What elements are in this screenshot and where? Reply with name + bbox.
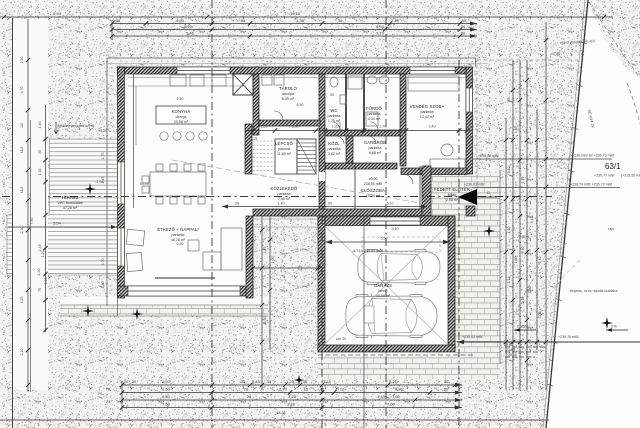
svg-text:9,70: 9,70 <box>376 31 385 36</box>
svg-text:15: 15 <box>304 387 309 392</box>
svg-text:(+215,50 mBf): (+215,50 mBf) <box>621 174 640 178</box>
svg-text:Ø 10: Ø 10 <box>336 387 345 392</box>
svg-text:1,75 m²: 1,75 m² <box>328 119 341 123</box>
svg-text:ELŐSZOBA: ELŐSZOBA <box>361 188 385 193</box>
svg-text:ÉTKEZŐ + NAPPALI: ÉTKEZŐ + NAPPALI <box>157 227 198 232</box>
svg-text:23,60: 23,60 <box>504 343 513 347</box>
svg-text:3,28: 3,28 <box>287 402 296 407</box>
svg-text:20: 20 <box>20 123 24 127</box>
svg-text:WC: WC <box>330 108 337 113</box>
svg-text:3,14: 3,14 <box>507 277 511 284</box>
svg-text:2,13: 2,13 <box>521 177 525 184</box>
svg-text:-4,71 = 255,65 mBf: -4,71 = 255,65 mBf <box>352 249 383 253</box>
svg-text:6,88 m²: 6,88 m² <box>369 151 382 155</box>
svg-text:30: 30 <box>330 93 334 97</box>
svg-text:5,10: 5,10 <box>392 227 399 231</box>
svg-text:cherga: cherga <box>176 115 187 119</box>
svg-text:1,20: 1,20 <box>332 125 339 129</box>
svg-text:parketta: parketta <box>421 110 434 114</box>
svg-text:parketta: parketta <box>369 146 382 150</box>
svg-text:30: 30 <box>444 387 449 392</box>
svg-text:6,40: 6,40 <box>538 257 542 264</box>
svg-text:um 30: um 30 <box>336 337 346 341</box>
svg-text:47,28 m²: 47,28 m² <box>63 206 78 210</box>
svg-text:4,34 m²: 4,34 m² <box>368 117 381 121</box>
svg-text:9,94: 9,94 <box>53 11 62 16</box>
svg-text:7,50: 7,50 <box>30 218 34 225</box>
svg-text:1,00: 1,00 <box>271 257 275 264</box>
svg-text:7,60: 7,60 <box>392 394 401 399</box>
svg-text:GARÁZS: GARÁZS <box>374 283 392 288</box>
svg-text:50: 50 <box>462 18 467 23</box>
svg-text:2,25%: 2,25% <box>517 324 529 329</box>
svg-text:30: 30 <box>241 379 246 384</box>
svg-text:rajn: rajn <box>608 227 614 231</box>
svg-text:11,6: 11,6 <box>20 187 24 194</box>
svg-text:parketta: parketta <box>328 114 341 118</box>
svg-text:2,50%: 2,50% <box>519 235 530 239</box>
svg-text:5,42: 5,42 <box>530 217 534 224</box>
svg-text:10,20 m²: 10,20 m² <box>366 194 381 198</box>
svg-text:VPC burkolattal: VPC burkolattal <box>58 201 83 205</box>
svg-text:35: 35 <box>38 150 42 154</box>
svg-text:90: 90 <box>328 202 332 206</box>
svg-text:98: 98 <box>241 18 246 23</box>
svg-text:kőlap: kőlap <box>448 193 457 197</box>
svg-text:238,95 mBf: 238,95 mBf <box>364 182 382 186</box>
svg-text:7,30: 7,30 <box>528 287 532 294</box>
svg-text:GARDRÓB: GARDRÓB <box>364 140 386 145</box>
svg-text:-0,86: -0,86 <box>552 52 560 56</box>
svg-text:40,00 m²: 40,00 m² <box>376 294 391 298</box>
svg-text:1,70: 1,70 <box>101 153 105 160</box>
svg-text:+236,28m Bf +236,73 mBf: +236,28m Bf +236,73 mBf <box>572 154 614 158</box>
svg-text:beton: beton <box>379 289 388 293</box>
svg-text:3,10: 3,10 <box>507 167 511 174</box>
svg-text:VENDÉG SZOBA: VENDÉG SZOBA <box>410 104 445 109</box>
svg-text:18,36: 18,36 <box>277 411 286 415</box>
svg-text:+0,20: +0,20 <box>98 129 107 133</box>
svg-text:1,40: 1,40 <box>377 394 386 399</box>
svg-text:20: 20 <box>124 379 129 384</box>
svg-text:1,35: 1,35 <box>38 169 42 176</box>
svg-text:parketta: parketta <box>368 112 381 116</box>
svg-text:5,46: 5,46 <box>186 31 195 36</box>
svg-text:30: 30 <box>303 379 308 384</box>
svg-text:58: 58 <box>116 18 121 23</box>
svg-text:30: 30 <box>444 379 449 384</box>
svg-text:5,54: 5,54 <box>53 221 62 226</box>
svg-text:±0,00: ±0,00 <box>369 177 378 181</box>
svg-text:25: 25 <box>106 400 110 404</box>
svg-text:30: 30 <box>338 18 343 23</box>
svg-text:7,40: 7,40 <box>391 18 400 23</box>
svg-text:6,50: 6,50 <box>162 379 171 384</box>
svg-text:7,96 m²: 7,96 m² <box>278 197 291 201</box>
svg-text:KÖZL: KÖZL <box>328 141 340 146</box>
svg-text:parketta: parketta <box>278 192 291 196</box>
svg-text:FEDETT ELŐTÉR: FEDETT ELŐTÉR <box>434 187 470 192</box>
svg-text:9,10: 9,10 <box>521 247 525 254</box>
svg-text:11,80 m²: 11,80 m² <box>277 152 292 156</box>
svg-text:65: 65 <box>507 98 511 102</box>
svg-text:+236,76 mBf: +236,76 mBf <box>558 335 578 339</box>
svg-text:1,46: 1,46 <box>38 122 42 129</box>
svg-text:3,15: 3,15 <box>323 379 332 384</box>
svg-text:1,75: 1,75 <box>263 247 267 254</box>
svg-text:2,45: 2,45 <box>38 245 42 252</box>
svg-text:75: 75 <box>38 288 42 292</box>
svg-text:2%: 2% <box>611 324 617 329</box>
svg-text:1,19: 1,19 <box>514 127 518 134</box>
svg-text:6,50: 6,50 <box>176 18 185 23</box>
svg-text:7,50: 7,50 <box>162 402 171 407</box>
svg-text:D: D <box>487 191 490 195</box>
svg-text:38: 38 <box>235 202 239 206</box>
svg-text:9,94: 9,94 <box>376 24 385 29</box>
svg-text:11,6: 11,6 <box>20 147 24 154</box>
svg-text:3,70: 3,70 <box>101 259 105 266</box>
svg-text:amolpa: amolpa <box>282 92 294 96</box>
svg-text:1,45: 1,45 <box>44 278 48 285</box>
svg-text:1,50: 1,50 <box>514 257 518 264</box>
svg-text:2,70: 2,70 <box>279 387 288 392</box>
svg-text:(tetőkert készítés szint): (tetőkert készítés szint) <box>57 124 94 128</box>
svg-text:70: 70 <box>98 392 102 396</box>
svg-text:2,95 m²: 2,95 m² <box>446 198 459 202</box>
svg-text:+236,78 mBf +236,73 mBf: +236,78 mBf +236,73 mBf <box>570 183 612 187</box>
svg-text:23,85: 23,85 <box>506 348 515 352</box>
svg-text:+236,83 mBf: +236,83 mBf <box>464 183 484 187</box>
svg-text:40: 40 <box>320 387 325 392</box>
svg-text:LÉPCSŐ: LÉPCSŐ <box>275 141 293 146</box>
svg-text:70: 70 <box>106 387 111 392</box>
svg-text:3,70: 3,70 <box>20 87 24 94</box>
svg-text:1,25: 1,25 <box>286 379 295 384</box>
svg-text:6,50: 6,50 <box>177 97 184 101</box>
svg-text:2,45: 2,45 <box>252 379 261 384</box>
svg-text:28: 28 <box>247 394 252 399</box>
svg-text:+235,63 mBf: +235,63 mBf <box>462 335 482 339</box>
svg-text:TERASZ: TERASZ <box>61 195 79 200</box>
svg-text:30: 30 <box>461 31 466 36</box>
svg-text:3,28: 3,28 <box>288 394 297 399</box>
svg-text:1,50: 1,50 <box>20 57 24 64</box>
svg-text:1,38: 1,38 <box>296 18 305 23</box>
svg-text:2,30: 2,30 <box>20 227 24 234</box>
svg-text:1,25: 1,25 <box>20 297 24 304</box>
svg-text:35: 35 <box>267 379 272 384</box>
svg-text:parketta: parketta <box>328 147 341 151</box>
svg-text:6,50: 6,50 <box>297 103 304 107</box>
svg-text:2,30: 2,30 <box>37 269 41 276</box>
svg-text:3,08: 3,08 <box>292 125 299 129</box>
svg-text:2,10: 2,10 <box>20 349 24 356</box>
svg-text:1,25: 1,25 <box>261 125 268 129</box>
svg-text:+230,77 mBf: +230,77 mBf <box>594 174 614 178</box>
svg-text:3,50: 3,50 <box>263 317 267 324</box>
svg-text:6,45 m²: 6,45 m² <box>282 97 295 101</box>
svg-text:20,10: 20,10 <box>508 353 517 357</box>
svg-text:5,10: 5,10 <box>387 202 394 206</box>
svg-text:pakona: pakona <box>278 147 290 151</box>
svg-text:63/1: 63/1 <box>605 162 621 171</box>
svg-text:1,40: 1,40 <box>278 202 285 206</box>
svg-text:1,25: 1,25 <box>251 137 258 141</box>
svg-text:KÖZLEKEDŐ: KÖZLEKEDŐ <box>271 186 299 191</box>
svg-text:4,80: 4,80 <box>395 387 404 392</box>
svg-text:30: 30 <box>132 379 137 384</box>
svg-text:6,21: 6,21 <box>389 379 398 384</box>
svg-text:3,40: 3,40 <box>429 125 436 129</box>
svg-text:1,10: 1,10 <box>507 227 511 234</box>
svg-text:TÁROLÓ: TÁROLÓ <box>279 86 298 91</box>
svg-text:6,95: 6,95 <box>184 24 193 29</box>
svg-text:30: 30 <box>461 24 466 29</box>
svg-text:6,50: 6,50 <box>162 387 171 392</box>
svg-text:28: 28 <box>244 387 249 392</box>
svg-text:2,40: 2,40 <box>101 282 105 289</box>
svg-text:parketta: parketta <box>172 233 185 237</box>
svg-text:6,50: 6,50 <box>162 394 171 399</box>
svg-text:19,10: 19,10 <box>290 11 301 16</box>
svg-text:6,50: 6,50 <box>177 242 184 246</box>
svg-text:20,98 m²: 20,98 m² <box>174 120 189 124</box>
svg-text:+236,78 mBf: +236,78 mBf <box>478 154 498 158</box>
svg-text:-1,05: -1,05 <box>95 180 103 184</box>
svg-text:7,60: 7,60 <box>387 402 396 407</box>
svg-text:3,82 m²: 3,82 m² <box>328 152 341 156</box>
svg-text:FÜRDŐ: FÜRDŐ <box>366 106 382 111</box>
svg-text:2,70: 2,70 <box>380 125 387 129</box>
svg-text:13,42 m²: 13,42 m² <box>420 115 435 119</box>
svg-text:bejárás, út és rájutás uradalr: bejárás, út és rájutás uradalra <box>570 289 618 293</box>
svg-text:KONYHA: KONYHA <box>172 109 191 114</box>
svg-text:±0,00: ±0,00 <box>140 182 149 186</box>
